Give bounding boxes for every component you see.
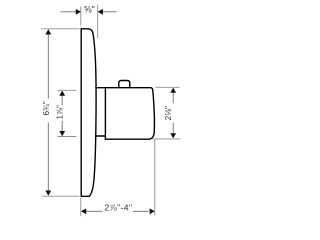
svg-text:1⅞": 1⅞" (55, 105, 64, 119)
svg-text:2⅛": 2⅛" (164, 106, 173, 120)
svg-text:6¾": 6¾" (42, 101, 51, 115)
svg-text:2⅞"-4": 2⅞"-4" (104, 203, 132, 213)
svg-text:⅝": ⅝" (84, 4, 95, 14)
